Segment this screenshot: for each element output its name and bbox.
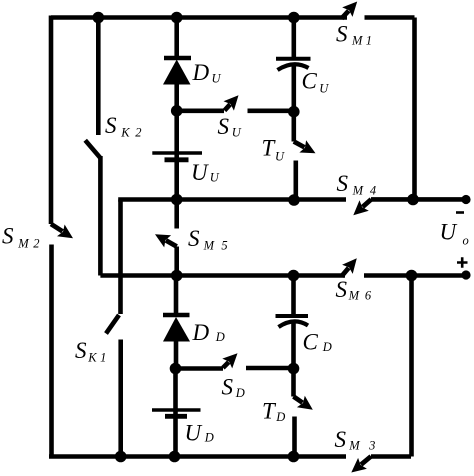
svg-text:6: 6: [365, 289, 372, 303]
svg-text:M: M: [203, 238, 215, 252]
svg-text:U: U: [440, 220, 458, 245]
svg-text:M: M: [17, 237, 29, 251]
svg-text:2: 2: [33, 237, 39, 251]
svg-text:S: S: [2, 224, 14, 249]
svg-text:1: 1: [366, 34, 372, 48]
svg-text:D: D: [275, 410, 285, 424]
svg-text:2: 2: [135, 126, 141, 140]
svg-text:1: 1: [100, 351, 106, 365]
svg-text:o: o: [463, 234, 469, 248]
svg-text:D: D: [215, 330, 225, 344]
svg-text:M: M: [351, 34, 363, 48]
svg-text:T: T: [262, 399, 277, 424]
svg-text:K: K: [87, 351, 97, 365]
svg-text:U: U: [191, 160, 209, 185]
svg-text:S: S: [222, 375, 234, 400]
svg-text:5: 5: [221, 238, 227, 252]
svg-text:4: 4: [370, 183, 376, 197]
svg-text:D: D: [192, 60, 210, 85]
svg-text:S: S: [335, 427, 347, 452]
svg-text:U: U: [319, 82, 329, 96]
svg-text:S: S: [75, 338, 87, 363]
svg-text:S: S: [337, 171, 349, 196]
svg-text:U: U: [212, 72, 222, 86]
svg-text:C: C: [302, 69, 318, 94]
svg-text:S: S: [336, 277, 348, 302]
svg-text:S: S: [218, 114, 230, 139]
svg-text:3: 3: [368, 439, 375, 453]
svg-text:S: S: [188, 226, 200, 251]
svg-text:D: D: [192, 320, 210, 345]
svg-text:K: K: [120, 126, 130, 140]
svg-text:U: U: [210, 171, 220, 185]
svg-text:M: M: [348, 289, 360, 303]
svg-text:C: C: [303, 330, 319, 355]
svg-text:D: D: [235, 386, 245, 400]
svg-text:U: U: [185, 421, 203, 446]
svg-text:M: M: [352, 183, 364, 197]
svg-text:U: U: [275, 150, 285, 164]
svg-text:U: U: [232, 126, 242, 140]
svg-text:S: S: [336, 21, 348, 46]
svg-text:S: S: [105, 113, 117, 138]
svg-text:D: D: [204, 431, 214, 445]
svg-text:D: D: [322, 340, 332, 354]
svg-text:M: M: [348, 439, 360, 453]
